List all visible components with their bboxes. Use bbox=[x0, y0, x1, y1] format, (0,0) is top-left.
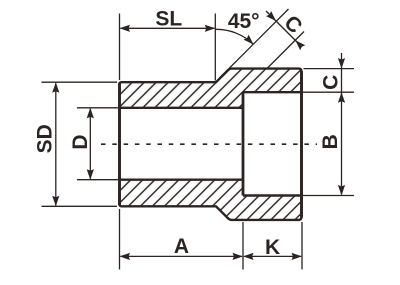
corner extension line D2 bbox=[267, 32, 304, 69]
bore B bottom edge bbox=[243, 194, 302, 196]
SD arrow bottom bbox=[52, 196, 59, 207]
D arrow bottom bbox=[87, 169, 94, 180]
C diagonal arrow upper bbox=[266, 11, 276, 21]
bore B top edge bbox=[243, 91, 302, 93]
K right extension line bbox=[301, 222, 303, 270]
svg-text:45°: 45° bbox=[228, 10, 260, 33]
K arrow left bbox=[243, 253, 254, 260]
D bottom extension line bbox=[77, 179, 118, 181]
A left extension line bbox=[119, 209, 121, 270]
SD bottom extension line bbox=[42, 205, 118, 207]
SL dimension line bbox=[121, 27, 215, 29]
D arrow top bbox=[87, 108, 94, 119]
D dimension line bbox=[89, 109, 91, 179]
SL arrow left bbox=[120, 25, 131, 32]
A arrow left bbox=[120, 253, 131, 260]
bore D top edge bbox=[120, 107, 244, 109]
svg-text:B: B bbox=[319, 134, 342, 149]
counterbore step face bbox=[242, 92, 245, 195]
C top extension line bbox=[304, 68, 355, 70]
svg-text:C: C bbox=[319, 75, 342, 90]
B/C shared extension line (bore B top) bbox=[302, 91, 355, 93]
K dimension line bbox=[244, 255, 301, 257]
C diagonal dimension line bbox=[266, 11, 301, 46]
C/B dimension line bbox=[341, 53, 343, 195]
A/K middle extension line bbox=[242, 222, 244, 270]
SL extension line right / 45deg vertex line bbox=[214, 14, 216, 81]
svg-text:D: D bbox=[69, 134, 92, 149]
part outer outline bbox=[120, 69, 302, 220]
svg-text:SD: SD bbox=[34, 124, 57, 153]
right face emphasis bbox=[300, 71, 303, 217]
45deg arc bbox=[215, 29, 253, 44]
hatched upper wall section bbox=[120, 69, 302, 108]
A dimension line bbox=[121, 255, 243, 257]
chamfer extension line D1 bbox=[220, 9, 289, 78]
B arrow bottom (down) bbox=[338, 185, 345, 196]
SD top extension line bbox=[42, 81, 118, 83]
K arrow right bbox=[292, 253, 303, 260]
left face emphasis bbox=[118, 83, 121, 205]
C arrow top (down) bbox=[338, 58, 345, 69]
C/B shared arrow (up) bbox=[338, 92, 345, 103]
C diagonal arrow lower bbox=[295, 40, 305, 50]
hatched lower wall section bbox=[120, 180, 302, 220]
SD dimension line bbox=[55, 83, 57, 205]
D top extension line bbox=[77, 107, 118, 109]
centerline bbox=[101, 143, 317, 145]
bore D bottom edge bbox=[120, 178, 244, 180]
SL arrow right bbox=[205, 25, 216, 32]
svg-text:SL: SL bbox=[155, 7, 182, 30]
SD arrow top bbox=[52, 82, 59, 93]
svg-text:A: A bbox=[174, 235, 189, 258]
svg-text:K: K bbox=[265, 236, 280, 259]
45deg arc arrow bbox=[244, 35, 254, 45]
SL extension line left bbox=[119, 14, 121, 81]
A arrow right bbox=[233, 253, 244, 260]
B bottom extension line bbox=[302, 195, 355, 197]
